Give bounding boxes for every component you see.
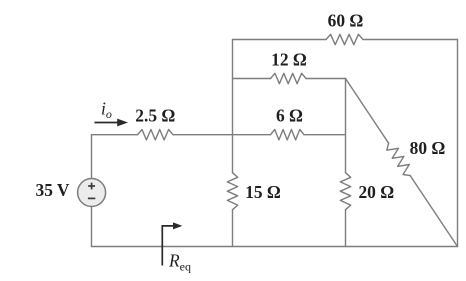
voltage source V1 35V [78, 179, 106, 207]
wire middle vertical (node C down) [345, 79, 347, 247]
current arrow i_o [95, 119, 129, 127]
svg-text:15 Ω: 15 Ω [245, 182, 281, 202]
minus sign [88, 197, 95, 199]
plus sign [88, 183, 95, 190]
resistor 2.5ohm [138, 130, 173, 140]
wire top (node between 60ohm branch corners) [233, 39, 458, 41]
svg-text:35 V: 35 V [36, 180, 70, 200]
wire left vertical source branch [91, 135, 93, 247]
svg-text:12 Ω: 12 Ω [271, 50, 307, 70]
svg-text:io: io [101, 99, 112, 122]
wire bottom [92, 246, 458, 248]
svg-text:Req: Req [168, 251, 191, 274]
resistor 6ohm [271, 130, 305, 140]
svg-text:20 Ω: 20 Ω [358, 182, 394, 202]
wire 12ohm row [233, 78, 346, 80]
Req arrow [162, 222, 182, 265]
wire left vertical of upper mesh [232, 40, 234, 247]
resistor R 60ohm [326, 34, 363, 44]
wire right vertical [457, 40, 459, 247]
svg-text:80 Ω: 80 Ω [410, 138, 446, 158]
wire main row with 2.5ohm and 6ohm [92, 134, 346, 136]
resistor 20ohm [340, 173, 350, 210]
wire diagonal 80ohm branch [346, 79, 458, 247]
resistor 15ohm [227, 173, 237, 210]
svg-text:2.5 Ω: 2.5 Ω [135, 105, 175, 125]
svg-text:6 Ω: 6 Ω [276, 105, 303, 125]
resistor 12ohm [271, 73, 307, 83]
resistor 80ohm [387, 143, 410, 175]
svg-text:60 Ω: 60 Ω [328, 11, 364, 31]
